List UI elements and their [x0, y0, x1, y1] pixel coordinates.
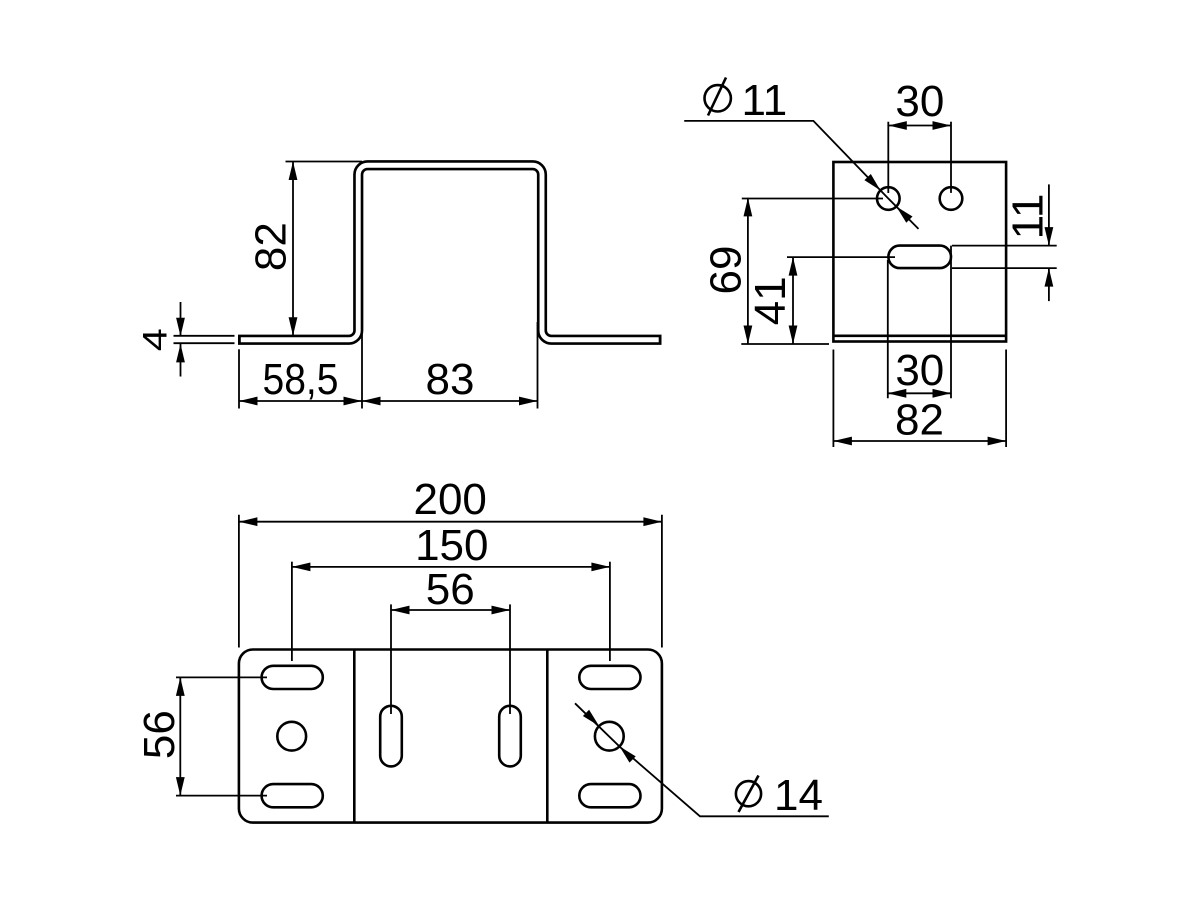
- svg-text:11: 11: [742, 76, 788, 125]
- dimension 82 side width: [833, 350, 1006, 448]
- dimension 30 slot width: [888, 260, 951, 398]
- slot bottom left: [262, 784, 323, 807]
- bend line left: [353, 650, 356, 823]
- svg-text:200: 200: [413, 475, 486, 524]
- svg-text:14: 14: [774, 771, 823, 820]
- svg-text:150: 150: [415, 521, 488, 570]
- svg-text:58,5: 58,5: [263, 355, 339, 404]
- plan view outline: [239, 650, 662, 823]
- dimension 200: [239, 475, 662, 648]
- dimension 83: [362, 322, 538, 409]
- svg-text:41: 41: [746, 276, 795, 325]
- bend line right: [546, 650, 549, 823]
- dimension 58,5: [239, 322, 362, 409]
- dimension 69: [702, 198, 883, 344]
- side view plate outline: [833, 162, 1006, 342]
- front view hat profile: [238, 165, 662, 340]
- svg-text:30: 30: [895, 77, 944, 126]
- leader line d14: [575, 703, 829, 816]
- slot 30x11 side view: [888, 246, 951, 269]
- dimension 150: [292, 521, 610, 661]
- svg-text:56: 56: [426, 565, 475, 614]
- label diameter 11: [705, 76, 788, 125]
- svg-text:82: 82: [247, 222, 296, 271]
- hole d14 left: [277, 722, 306, 751]
- slot top left: [262, 666, 323, 689]
- dimension 4 thickness: [136, 302, 234, 377]
- svg-text:56: 56: [135, 710, 184, 759]
- dimension 56 row spacing: [135, 677, 267, 795]
- hole d14 right: [595, 722, 624, 751]
- hole d11 right: [940, 187, 963, 210]
- svg-text:11: 11: [1004, 194, 1053, 240]
- slot middle left: [380, 706, 402, 767]
- leader line d11: [684, 121, 918, 229]
- dimension 41: [746, 257, 895, 344]
- label diameter 14: [736, 771, 823, 820]
- dimension 30 hole spacing: [888, 77, 951, 398]
- svg-text:82: 82: [895, 396, 944, 445]
- dimension 11 slot height: [952, 184, 1057, 301]
- slot bottom right: [579, 784, 640, 807]
- dimension 82 front height: [247, 162, 362, 336]
- dimension 56 slot spacing: [391, 565, 510, 714]
- slot top right: [579, 666, 640, 689]
- hole d11 left: [877, 187, 900, 210]
- svg-text:4: 4: [136, 328, 174, 351]
- svg-text:83: 83: [426, 355, 475, 404]
- slot middle right: [499, 706, 521, 767]
- svg-text:69: 69: [702, 246, 751, 295]
- svg-text:30: 30: [895, 346, 944, 395]
